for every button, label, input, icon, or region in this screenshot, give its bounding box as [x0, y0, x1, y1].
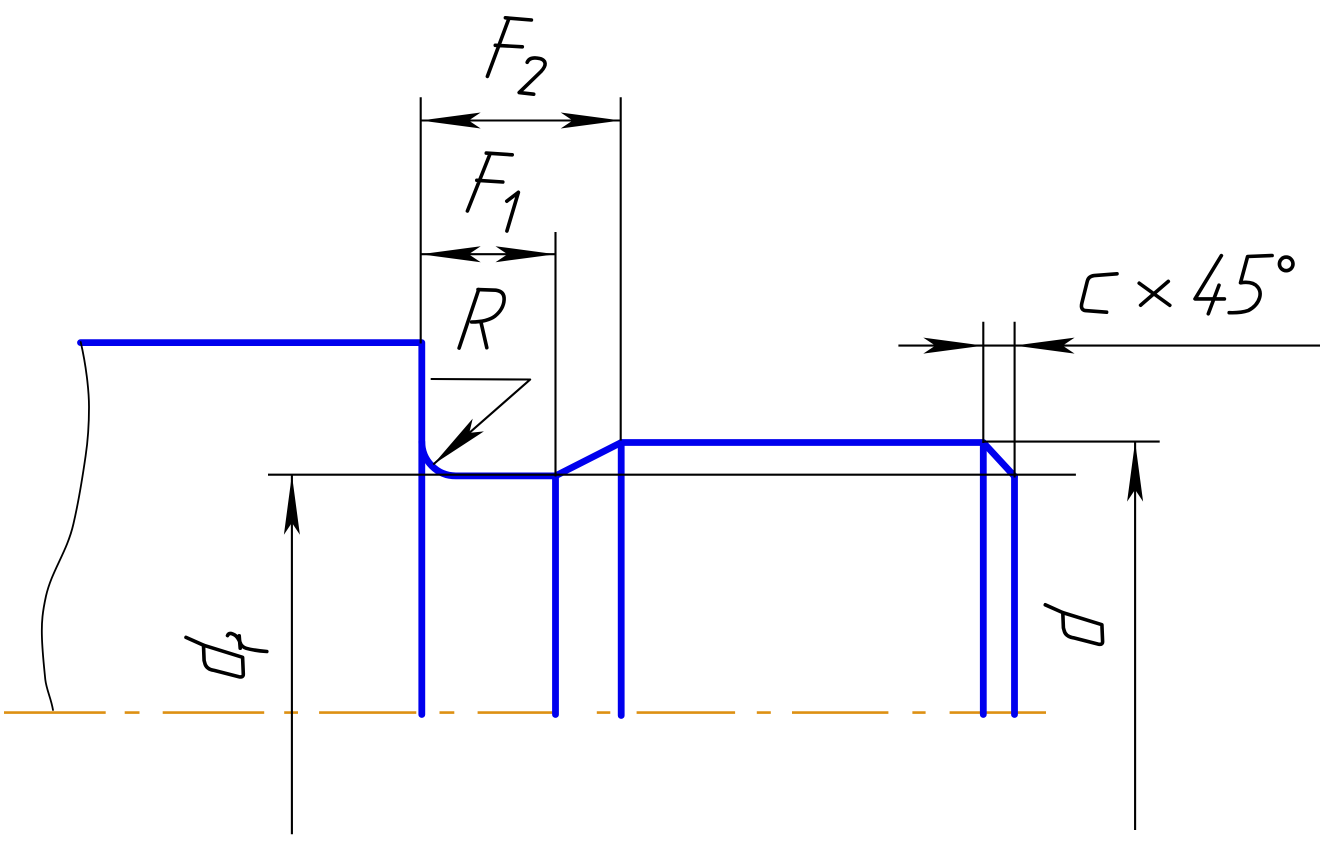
F2 right extension line [620, 97, 622, 440]
chamfer dim right arrow (points left) [1015, 338, 1075, 354]
d reference line [983, 441, 1159, 443]
arrows (black filled) [284, 113, 1143, 535]
fillet R + groove bottom [422, 442, 556, 476]
break line (wavy) [42, 342, 89, 710]
chamfer dim left arrow (points right) [923, 338, 983, 354]
F1 right extension line [554, 232, 556, 477]
thin black lines [268, 97, 1320, 834]
d_f dimension line [291, 475, 293, 835]
centerline (axis, orange dash-dot) [4, 711, 1046, 714]
F1 left arrow [421, 246, 481, 262]
label c x 45deg [1081, 256, 1293, 314]
chamfer start edge vertical [980, 443, 987, 715]
d up arrow [1127, 442, 1143, 502]
label d_f (rotated) [186, 633, 267, 677]
F2 left arrow [421, 113, 481, 129]
F2 right arrow [561, 113, 621, 129]
shaft outline: big diameter top + shoulder face (blue) [81, 343, 1015, 716]
groove right face vertical [552, 476, 559, 715]
F1 dimension line [421, 253, 556, 255]
label F2 [487, 18, 545, 94]
label R [459, 290, 504, 349]
label d (rotated) [1045, 605, 1102, 645]
cylinder left edge vertical [618, 443, 625, 716]
label F1 [467, 153, 518, 231]
R leader line [431, 379, 531, 465]
groove exit taper + cylinder top + chamfer [556, 443, 1015, 477]
F2 left extension line [420, 97, 422, 343]
chamfer right extension line [1014, 322, 1016, 478]
d_f up arrow [284, 475, 300, 535]
R leader arrowhead [433, 419, 484, 465]
d dimension line [1134, 442, 1136, 830]
chamfer left extension line [982, 322, 984, 443]
F1 right arrow [496, 246, 556, 262]
shaft end face vertical [1011, 476, 1018, 714]
F2 dimension line [421, 119, 621, 121]
d_f reference line [268, 474, 1076, 476]
labels (hand drawn ISO italic strokes) [186, 18, 1293, 677]
chamfer dimension line [898, 345, 1320, 347]
